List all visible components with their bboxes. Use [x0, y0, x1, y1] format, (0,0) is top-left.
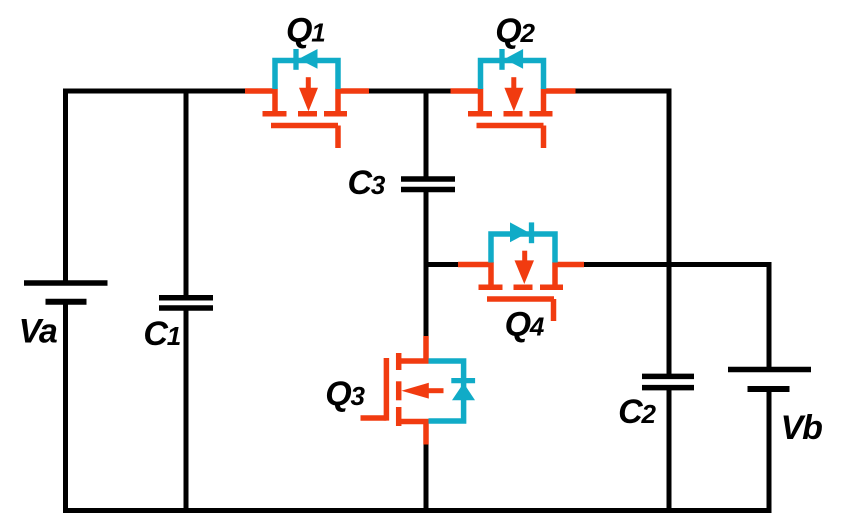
transistor Q4: [458, 222, 584, 321]
wire center vertical lower (Q3 source to bottom rail): [424, 444, 429, 511]
Q3 body diode triangle (points up): [452, 383, 475, 400]
Q4 body diode triangle (points right): [510, 222, 529, 242]
Q4 body diode cathode bar: [529, 222, 534, 243]
svg-text:C3: C3: [347, 164, 385, 202]
Q1 channel pads: [263, 111, 287, 117]
battery Va: [24, 283, 108, 302]
Q3 drain lead (red, from node B wire): [423, 336, 429, 363]
Q2 source contact drop: [541, 89, 547, 115]
Q3 body arrow (points left): [428, 388, 444, 393]
Q2 gate lead: [541, 126, 547, 149]
Q1 drain lead (red): [245, 88, 277, 94]
Q2 channel pads: [468, 111, 492, 117]
wire node B horizontal left (center vertical to Q4 drain): [424, 262, 460, 267]
Q2 body diode cathode bar: [499, 49, 504, 70]
svg-text:Q4: Q4: [505, 306, 545, 344]
svg-text:Q3: Q3: [325, 375, 365, 413]
capacitor C1: [159, 298, 213, 308]
wire right vertical lower (C2 to bottom rail): [667, 388, 672, 511]
Q2 drain contact drop: [478, 89, 484, 115]
wire Vb vertical upper: [767, 262, 772, 370]
transistor Q1: [245, 49, 369, 148]
Q3 source contact connector: [400, 419, 429, 425]
Q3 gate lead (left): [361, 415, 387, 421]
capacitor C3: [401, 179, 455, 190]
wire left vertical lower (Va- to bottom rail): [63, 301, 68, 513]
Q1 body diode cathode bar: [293, 49, 298, 70]
Q3 gate bar (vertical): [384, 358, 390, 421]
wire right vertical (top rail through node junction down to C2): [667, 89, 672, 377]
wire top-left horizontal (node A: Va+ to Q1 drain): [63, 89, 246, 94]
wire center vertical upper (top rail to C3): [424, 89, 429, 180]
svg-text:C2: C2: [618, 393, 656, 431]
Q2 gate bar: [477, 123, 544, 129]
wire Q4 source horizontal to Vb corner: [583, 262, 772, 267]
wire C1 vertical upper: [184, 89, 189, 298]
wire top-middle horizontal (Q1 source to Q2 drain, C3 top junction): [368, 89, 452, 94]
svg-text:Q2: Q2: [495, 12, 535, 50]
transistor Q2: [451, 49, 576, 148]
Q4 gate lead: [551, 299, 557, 321]
Q4 body diode loop (cyan): [491, 234, 555, 263]
Q4 gate bar: [487, 296, 554, 302]
wire Vb vertical lower: [767, 389, 772, 511]
Q1 body diode loop (cyan): [275, 61, 338, 90]
Q1 body arrow: [306, 77, 311, 90]
Q3 channel pads (vertical dashes): [396, 353, 402, 370]
Q2 drain lead (red): [451, 88, 483, 94]
svg-text:Q1: Q1: [286, 12, 325, 50]
battery Vb: [728, 370, 811, 390]
Q2 source lead (red): [542, 88, 576, 94]
wire left vertical upper (Va+ rail): [63, 89, 68, 284]
Q2 body arrow: [511, 77, 516, 90]
svg-text:C1: C1: [143, 315, 180, 353]
transistor Q3 (rotated): [361, 336, 476, 445]
Q1 body diode triangle: [299, 49, 318, 69]
Q3 drain contact connector: [400, 358, 429, 364]
Q4 drain contact drop: [488, 262, 494, 288]
wire C1 vertical lower: [184, 308, 189, 511]
wire top-right horizontal (Q2 source to right rail): [574, 89, 671, 94]
Q3 body diode loop (cyan): [429, 361, 464, 421]
Q1 drain contact drop: [272, 89, 278, 115]
Q2 body diode loop (cyan): [481, 61, 544, 90]
svg-text:Va: Va: [19, 313, 57, 351]
svg-text:Vb: Vb: [781, 409, 822, 447]
capacitor C2: [642, 376, 694, 387]
Q4 source contact drop: [552, 262, 558, 288]
Q4 drain lead (red): [458, 262, 493, 268]
Q4 body arrow: [522, 251, 527, 263]
Q4 channel pads: [479, 285, 503, 291]
Q3 source lead (red, down): [423, 420, 429, 445]
Q1 source lead (red): [336, 88, 369, 94]
Q4 source lead (red): [553, 262, 584, 268]
Q3 body diode cathode bar: [451, 378, 475, 383]
Q1 gate lead: [335, 126, 341, 149]
wire center vertical middle (C3 to Q3 drain, node B junction): [424, 190, 429, 338]
Q2 body diode triangle: [505, 49, 524, 69]
Q1 source contact drop: [335, 89, 341, 115]
Q1 gate bar: [271, 123, 338, 129]
wire bottom horizontal rail: [63, 508, 772, 513]
